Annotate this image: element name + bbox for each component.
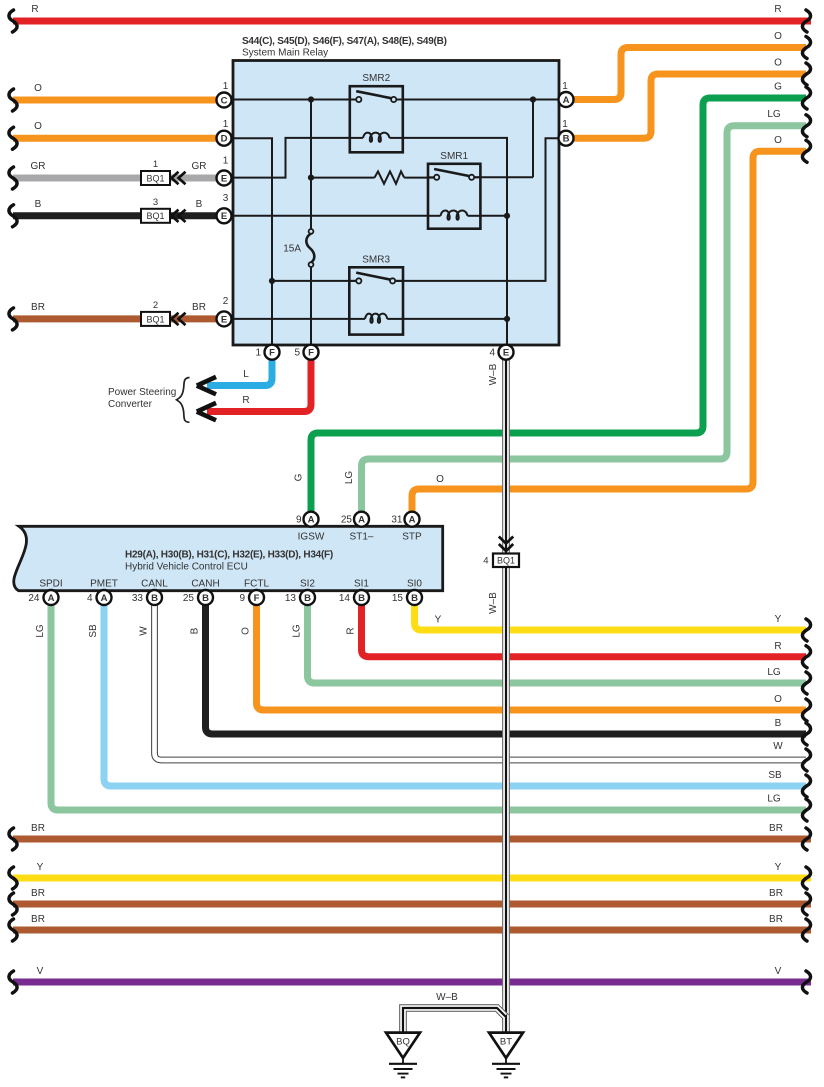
svg-text:SB: SB [88, 624, 99, 638]
svg-text:IGSW: IGSW [298, 532, 325, 543]
svg-text:14: 14 [339, 593, 351, 604]
pin FCTL 9(F) [239, 579, 269, 606]
wire LG from SI2 [292, 605, 811, 694]
svg-text:BQ1: BQ1 [146, 314, 164, 324]
svg-text:Y: Y [435, 615, 442, 626]
pin PMET 4(A) [87, 579, 118, 606]
svg-text:BR: BR [31, 823, 45, 834]
pin SPDI 24(A) [28, 579, 62, 606]
pin ST1- 25(A) [341, 512, 374, 543]
svg-text:R: R [774, 4, 781, 15]
wire W-B from E4 to BT ground [488, 360, 509, 1033]
wire SMR1 coil to E4 [481, 215, 507, 217]
svg-text:15A: 15A [283, 244, 301, 255]
svg-text:A: A [48, 593, 55, 604]
pin CANH 25(B) [183, 579, 220, 606]
wire R from SI1 [346, 605, 811, 668]
wire O from pin A [574, 31, 811, 100]
wire C row to SMR2 switch [217, 99, 354, 101]
svg-text:BR: BR [31, 302, 45, 313]
svg-text:GR: GR [31, 161, 46, 172]
svg-text:V: V [37, 966, 44, 977]
svg-text:2: 2 [153, 300, 158, 311]
svg-text:BQ1: BQ1 [146, 211, 164, 221]
wire LG to ST1- [344, 109, 811, 512]
svg-text:STP: STP [402, 532, 422, 543]
pin F5 (5) [294, 345, 318, 360]
svg-text:D: D [221, 134, 228, 145]
svg-text:33: 33 [132, 593, 144, 604]
svg-text:25: 25 [341, 515, 353, 526]
wire O from FCTL [241, 605, 811, 721]
svg-text:BR: BR [192, 302, 206, 313]
svg-text:A: A [358, 515, 365, 526]
svg-text:1: 1 [223, 81, 229, 92]
svg-text:L: L [243, 369, 249, 380]
wire R top [9, 4, 811, 32]
junction dot D-SMR3 [269, 278, 275, 284]
svg-text:R: R [346, 627, 357, 634]
svg-text:A: A [563, 95, 570, 106]
wire GR to pin E1 [9, 161, 217, 189]
svg-text:W–B: W–B [488, 363, 499, 385]
wire SMR3 coil to E4 [403, 318, 507, 320]
svg-text:BQ1: BQ1 [497, 556, 515, 566]
svg-text:G: G [294, 473, 305, 481]
System Main Relay box [233, 61, 559, 346]
wire LG from SPDI [35, 605, 811, 821]
ECU title Hybrid Vehicle Control ECU [125, 562, 248, 573]
wire E2 to SMR3 coil [217, 318, 350, 320]
svg-text:F: F [269, 348, 275, 359]
svg-text:Y: Y [37, 862, 44, 873]
svg-text:E: E [221, 173, 227, 184]
svg-text:B: B [411, 593, 418, 604]
svg-text:A: A [101, 593, 108, 604]
svg-text:1: 1 [223, 119, 229, 130]
wire V row [9, 966, 811, 993]
ground BT [489, 1033, 523, 1078]
svg-text:F: F [254, 593, 260, 604]
svg-text:B: B [151, 593, 158, 604]
connector chevrons on W-B [499, 537, 513, 552]
svg-text:LG: LG [767, 794, 781, 805]
wire SMR3 switch to pin B [395, 138, 558, 281]
connector BQ1 on BR wire [141, 300, 186, 326]
svg-text:O: O [34, 121, 42, 132]
relay SMR1 [428, 151, 480, 229]
svg-text:1: 1 [562, 119, 568, 130]
svg-text:BR: BR [31, 914, 45, 925]
wire O to pin C [9, 83, 217, 111]
wire BR row3 [9, 914, 811, 941]
wire O from pin B [574, 58, 811, 139]
wire B to pin E3 [9, 199, 217, 227]
svg-text:BR: BR [769, 823, 783, 834]
wire BR row1 [9, 823, 811, 850]
svg-text:E: E [221, 314, 227, 325]
pin E2 (2) [217, 296, 232, 326]
svg-text:LG: LG [767, 667, 781, 678]
svg-text:V: V [775, 966, 782, 977]
svg-text:O: O [34, 83, 42, 94]
relay connector title S44-S49 [242, 36, 447, 47]
svg-text:B: B [202, 593, 209, 604]
svg-text:B: B [190, 627, 201, 634]
brace power steering [177, 378, 190, 423]
svg-text:ST1–: ST1– [350, 532, 374, 543]
pin STP 31(A) [391, 512, 422, 543]
resistor (precharge) [375, 171, 405, 183]
svg-text:Hybrid Vehicle Control ECU: Hybrid Vehicle Control ECU [125, 562, 248, 573]
relay SMR2 [350, 73, 403, 152]
wire fuse vertical upper [310, 100, 312, 230]
svg-text:SMR1: SMR1 [440, 151, 468, 162]
pin B (1) [559, 119, 574, 146]
svg-text:BT: BT [500, 1037, 512, 1048]
relay SMR3 [349, 254, 403, 334]
svg-text:13: 13 [285, 593, 297, 604]
svg-text:SI0: SI0 [407, 579, 422, 590]
svg-text:9: 9 [239, 593, 245, 604]
junction dot fuse-resistor [308, 175, 314, 181]
svg-text:9: 9 [296, 515, 302, 526]
svg-text:A: A [308, 515, 315, 526]
wire SMR2 coil to E4 vertical [403, 138, 507, 345]
svg-text:SMR2: SMR2 [362, 73, 390, 84]
wire Y from SI0 [415, 605, 811, 641]
svg-text:5: 5 [294, 348, 300, 359]
pin CANL 33(B) [132, 579, 168, 606]
wire SMR3 switch left lead [272, 280, 356, 282]
wire O to STP [412, 135, 811, 512]
svg-text:4: 4 [489, 348, 495, 359]
svg-text:B: B [775, 718, 782, 729]
wire W-B branch to BQ ground [400, 992, 509, 1032]
svg-text:CANL: CANL [141, 579, 168, 590]
svg-text:Y: Y [775, 862, 782, 873]
svg-text:CANH: CANH [191, 579, 219, 590]
svg-text:C: C [221, 95, 228, 106]
junction dot coil-E4 SMR1 [504, 213, 510, 219]
svg-text:E: E [503, 348, 509, 359]
svg-text:1: 1 [223, 156, 229, 167]
Hybrid Vehicle Control ECU box [14, 526, 443, 590]
svg-text:1: 1 [255, 348, 261, 359]
pin SI0 15(B) [392, 579, 423, 606]
svg-text:B: B [563, 134, 570, 145]
fuse 15A [283, 229, 314, 267]
svg-text:BR: BR [769, 914, 783, 925]
svg-text:BR: BR [31, 888, 45, 899]
wire W from CANL [139, 605, 811, 771]
svg-text:LG: LG [292, 624, 303, 638]
pin D (1) [217, 119, 232, 146]
connector BQ1 on B wire [141, 197, 186, 223]
wire resistor lead left [311, 177, 375, 179]
svg-text:W: W [773, 741, 783, 752]
svg-text:F: F [308, 348, 314, 359]
svg-text:B: B [35, 199, 42, 210]
pin E1 (1) [217, 156, 232, 186]
svg-text:25: 25 [183, 593, 195, 604]
wire O to pin D [9, 121, 217, 149]
svg-text:3: 3 [223, 193, 229, 204]
svg-text:O: O [774, 58, 782, 69]
svg-text:S44(C), S45(D), S46(F), S47(A): S44(C), S45(D), S46(F), S47(A), S48(E), … [242, 36, 447, 47]
pin F1 (1) [255, 345, 279, 360]
ECU connector title H29-H34 [125, 550, 333, 561]
svg-text:R: R [242, 395, 249, 406]
svg-text:SPDI: SPDI [39, 579, 62, 590]
pin E4 (4) [489, 345, 513, 360]
svg-text:O: O [436, 474, 444, 485]
svg-text:BQ1: BQ1 [146, 173, 164, 183]
junction dot C-fuse [308, 96, 314, 102]
svg-text:W: W [139, 626, 150, 636]
wire fuse vertical lower to F5 [310, 267, 312, 345]
pin C (1) [217, 81, 232, 108]
svg-text:3: 3 [153, 197, 158, 208]
svg-text:Power Steering: Power Steering [108, 387, 176, 398]
svg-text:R: R [774, 641, 781, 652]
svg-text:W–B: W–B [436, 992, 458, 1003]
wire G to IGSW [294, 82, 811, 512]
svg-text:B: B [196, 199, 203, 210]
wire D to pin F1 vertical [217, 138, 273, 345]
svg-text:O: O [774, 694, 782, 705]
svg-text:R: R [31, 4, 38, 15]
svg-text:SMR3: SMR3 [362, 254, 390, 265]
pin IGSW 9(A) [296, 512, 325, 543]
wire SMR1 to A-row vertical [475, 100, 534, 178]
svg-text:4: 4 [87, 593, 93, 604]
wire BR to pin E2 [9, 302, 217, 330]
wire E3 to SMR1 coil [217, 215, 429, 217]
wire Y row [9, 862, 811, 889]
wire SB from PMET [88, 605, 811, 797]
relay title System Main Relay [242, 48, 328, 59]
svg-text:FCTL: FCTL [244, 579, 269, 590]
svg-text:4: 4 [483, 556, 488, 567]
wire R to power steering [207, 360, 311, 412]
svg-text:PMET: PMET [90, 579, 118, 590]
wire B from CANH [190, 605, 811, 745]
svg-text:LG: LG [344, 471, 355, 485]
svg-text:BQ: BQ [396, 1037, 410, 1048]
svg-text:B: B [304, 593, 311, 604]
svg-text:31: 31 [391, 515, 403, 526]
svg-text:E: E [221, 211, 227, 222]
svg-text:SI1: SI1 [354, 579, 369, 590]
wire SMR2 switch to pin A [397, 99, 559, 101]
wire BR row2 [9, 888, 811, 915]
pin A (1) [559, 81, 574, 107]
svg-text:24: 24 [28, 593, 40, 604]
pin E3 (3) [217, 193, 232, 223]
svg-text:SI2: SI2 [300, 579, 315, 590]
svg-text:Converter: Converter [108, 399, 153, 410]
svg-text:GR: GR [192, 161, 207, 172]
connector BQ1 on W-B [483, 554, 519, 568]
svg-text:O: O [774, 31, 782, 42]
wire L to power steering [207, 360, 272, 386]
pin SI1 14(B) [339, 579, 370, 606]
svg-text:SB: SB [768, 770, 782, 781]
svg-text:System Main Relay: System Main Relay [242, 48, 328, 59]
pin SI2 13(B) [285, 579, 316, 606]
ground BQ [386, 1033, 420, 1078]
svg-text:W–B: W–B [488, 592, 499, 614]
svg-text:15: 15 [392, 593, 404, 604]
svg-text:H29(A), H30(B), H31(C), H32(E): H29(A), H30(B), H31(C), H32(E), H33(D), … [125, 550, 333, 561]
svg-text:Y: Y [775, 614, 782, 625]
label Power Steering Converter [108, 387, 176, 410]
svg-text:LG: LG [35, 624, 46, 638]
connector BQ1 on GR wire [141, 159, 186, 185]
junction dot coil-E4 SMR3 [504, 316, 510, 322]
svg-text:G: G [774, 82, 782, 93]
svg-text:O: O [774, 135, 782, 146]
svg-text:B: B [358, 593, 365, 604]
svg-text:BR: BR [769, 888, 783, 899]
arrow L [197, 377, 216, 394]
svg-text:1: 1 [562, 81, 568, 92]
svg-text:1: 1 [153, 159, 158, 170]
svg-text:O: O [241, 627, 252, 635]
svg-text:LG: LG [767, 109, 781, 120]
wire E1 to SMR2 coil [217, 138, 351, 178]
junction dot A-SMR1 [530, 96, 536, 102]
wire resistor to SMR1 switch [404, 177, 434, 179]
svg-text:A: A [409, 515, 416, 526]
arrow R [197, 403, 216, 420]
svg-text:2: 2 [223, 296, 229, 307]
